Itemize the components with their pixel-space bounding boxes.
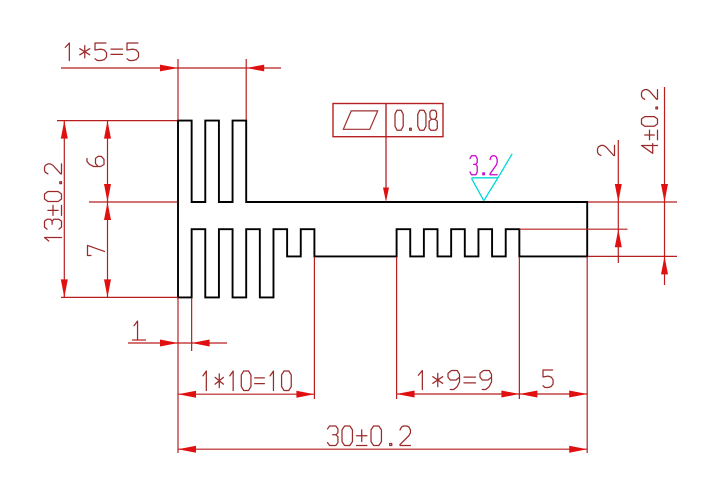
dimension 7 arrows [104,202,111,297]
dimension 1*9=9 arrows [397,391,520,398]
dimension 2 text [598,145,615,155]
dimension 1*10=10 extension line [313,257,315,399]
dimension 1*10=10 text [203,371,291,391]
dimension 1*9=9 extension lines [397,257,520,399]
dimension 1 line [128,340,227,343]
surface roughness value 3.2 [470,156,497,175]
flatness parallelogram symbol [343,111,377,129]
dimension 5 arrows [519,391,587,398]
dimension 2 line [617,140,619,263]
left extension line at fin top y=121 [57,120,177,122]
heatsink profile outline [178,121,587,298]
left extension line at fin bottom y=297 [61,296,178,298]
dimension 7 text [88,245,105,255]
dimension 1*9=9 text [418,371,491,390]
right extension line at bottom y=256 [588,255,677,257]
dimension 13+-0.2 line [63,121,65,298]
dimension 1 text [134,321,138,340]
dimension 13+-0.2 text [45,164,62,241]
left main extension line x=178 below profile [177,297,179,453]
dimension 1 extension line [191,298,193,351]
dimension 6 line [107,121,109,202]
dimension 1*5=5 extension lines [178,59,246,120]
dimension 5 text [543,370,553,388]
dimension 5 line [519,393,587,395]
dimension 4+-0.2 text [642,90,658,154]
dimension 1*10=10 arrows [178,391,314,398]
dimension 13+-0.2 arrows [61,121,68,298]
dimension 30+-0.2 text [328,426,411,446]
dimension 4+-0.2 arrows [661,184,668,274]
dimension 1*5=5 text [65,43,138,61]
dimension 1 arrows [160,340,210,347]
right extension line at plate top y=202 [588,201,677,203]
feature control frame box [333,104,443,137]
dimension 30+-0.2 line [178,448,587,450]
dimension 7 line [107,202,109,297]
dimension 1*10=10 line [178,393,314,395]
dimension 6 arrows [104,121,111,202]
feature control frame divider [385,104,387,137]
dimension 1*5=5 line [61,67,281,69]
feature control frame leader arrow [383,188,389,203]
dimension 2 arrows [615,184,622,247]
dimension 30+-0.2 arrows [178,446,587,453]
dimension 1*9=9 line [397,393,520,395]
right extension line at recess y=229 [519,228,627,230]
left extension line at plate top y=202 [89,201,178,203]
dimension 6 text [87,156,104,166]
dimension 4+-0.2 line [664,87,666,285]
feature control frame leader line [385,137,387,189]
dimension 30+-0.2 extension line right [586,257,588,453]
dimension 1*5=5 arrows [160,65,264,72]
surface roughness symbol [472,154,513,201]
feature control frame value 0.08 [395,110,437,130]
